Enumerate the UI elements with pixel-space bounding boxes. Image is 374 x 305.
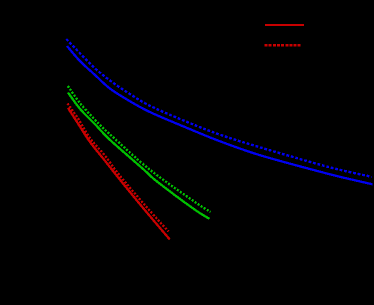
- green solid curve: [68, 93, 210, 219]
- green dashed curve: [68, 86, 211, 212]
- red solid curve: [68, 108, 170, 240]
- blue solid curve: [67, 46, 373, 184]
- blue dashed curve: [66, 39, 371, 177]
- red dashed curve: [68, 104, 169, 232]
- legend solid red line: [265, 24, 304, 26]
- legend dashed red line: [265, 44, 303, 46]
